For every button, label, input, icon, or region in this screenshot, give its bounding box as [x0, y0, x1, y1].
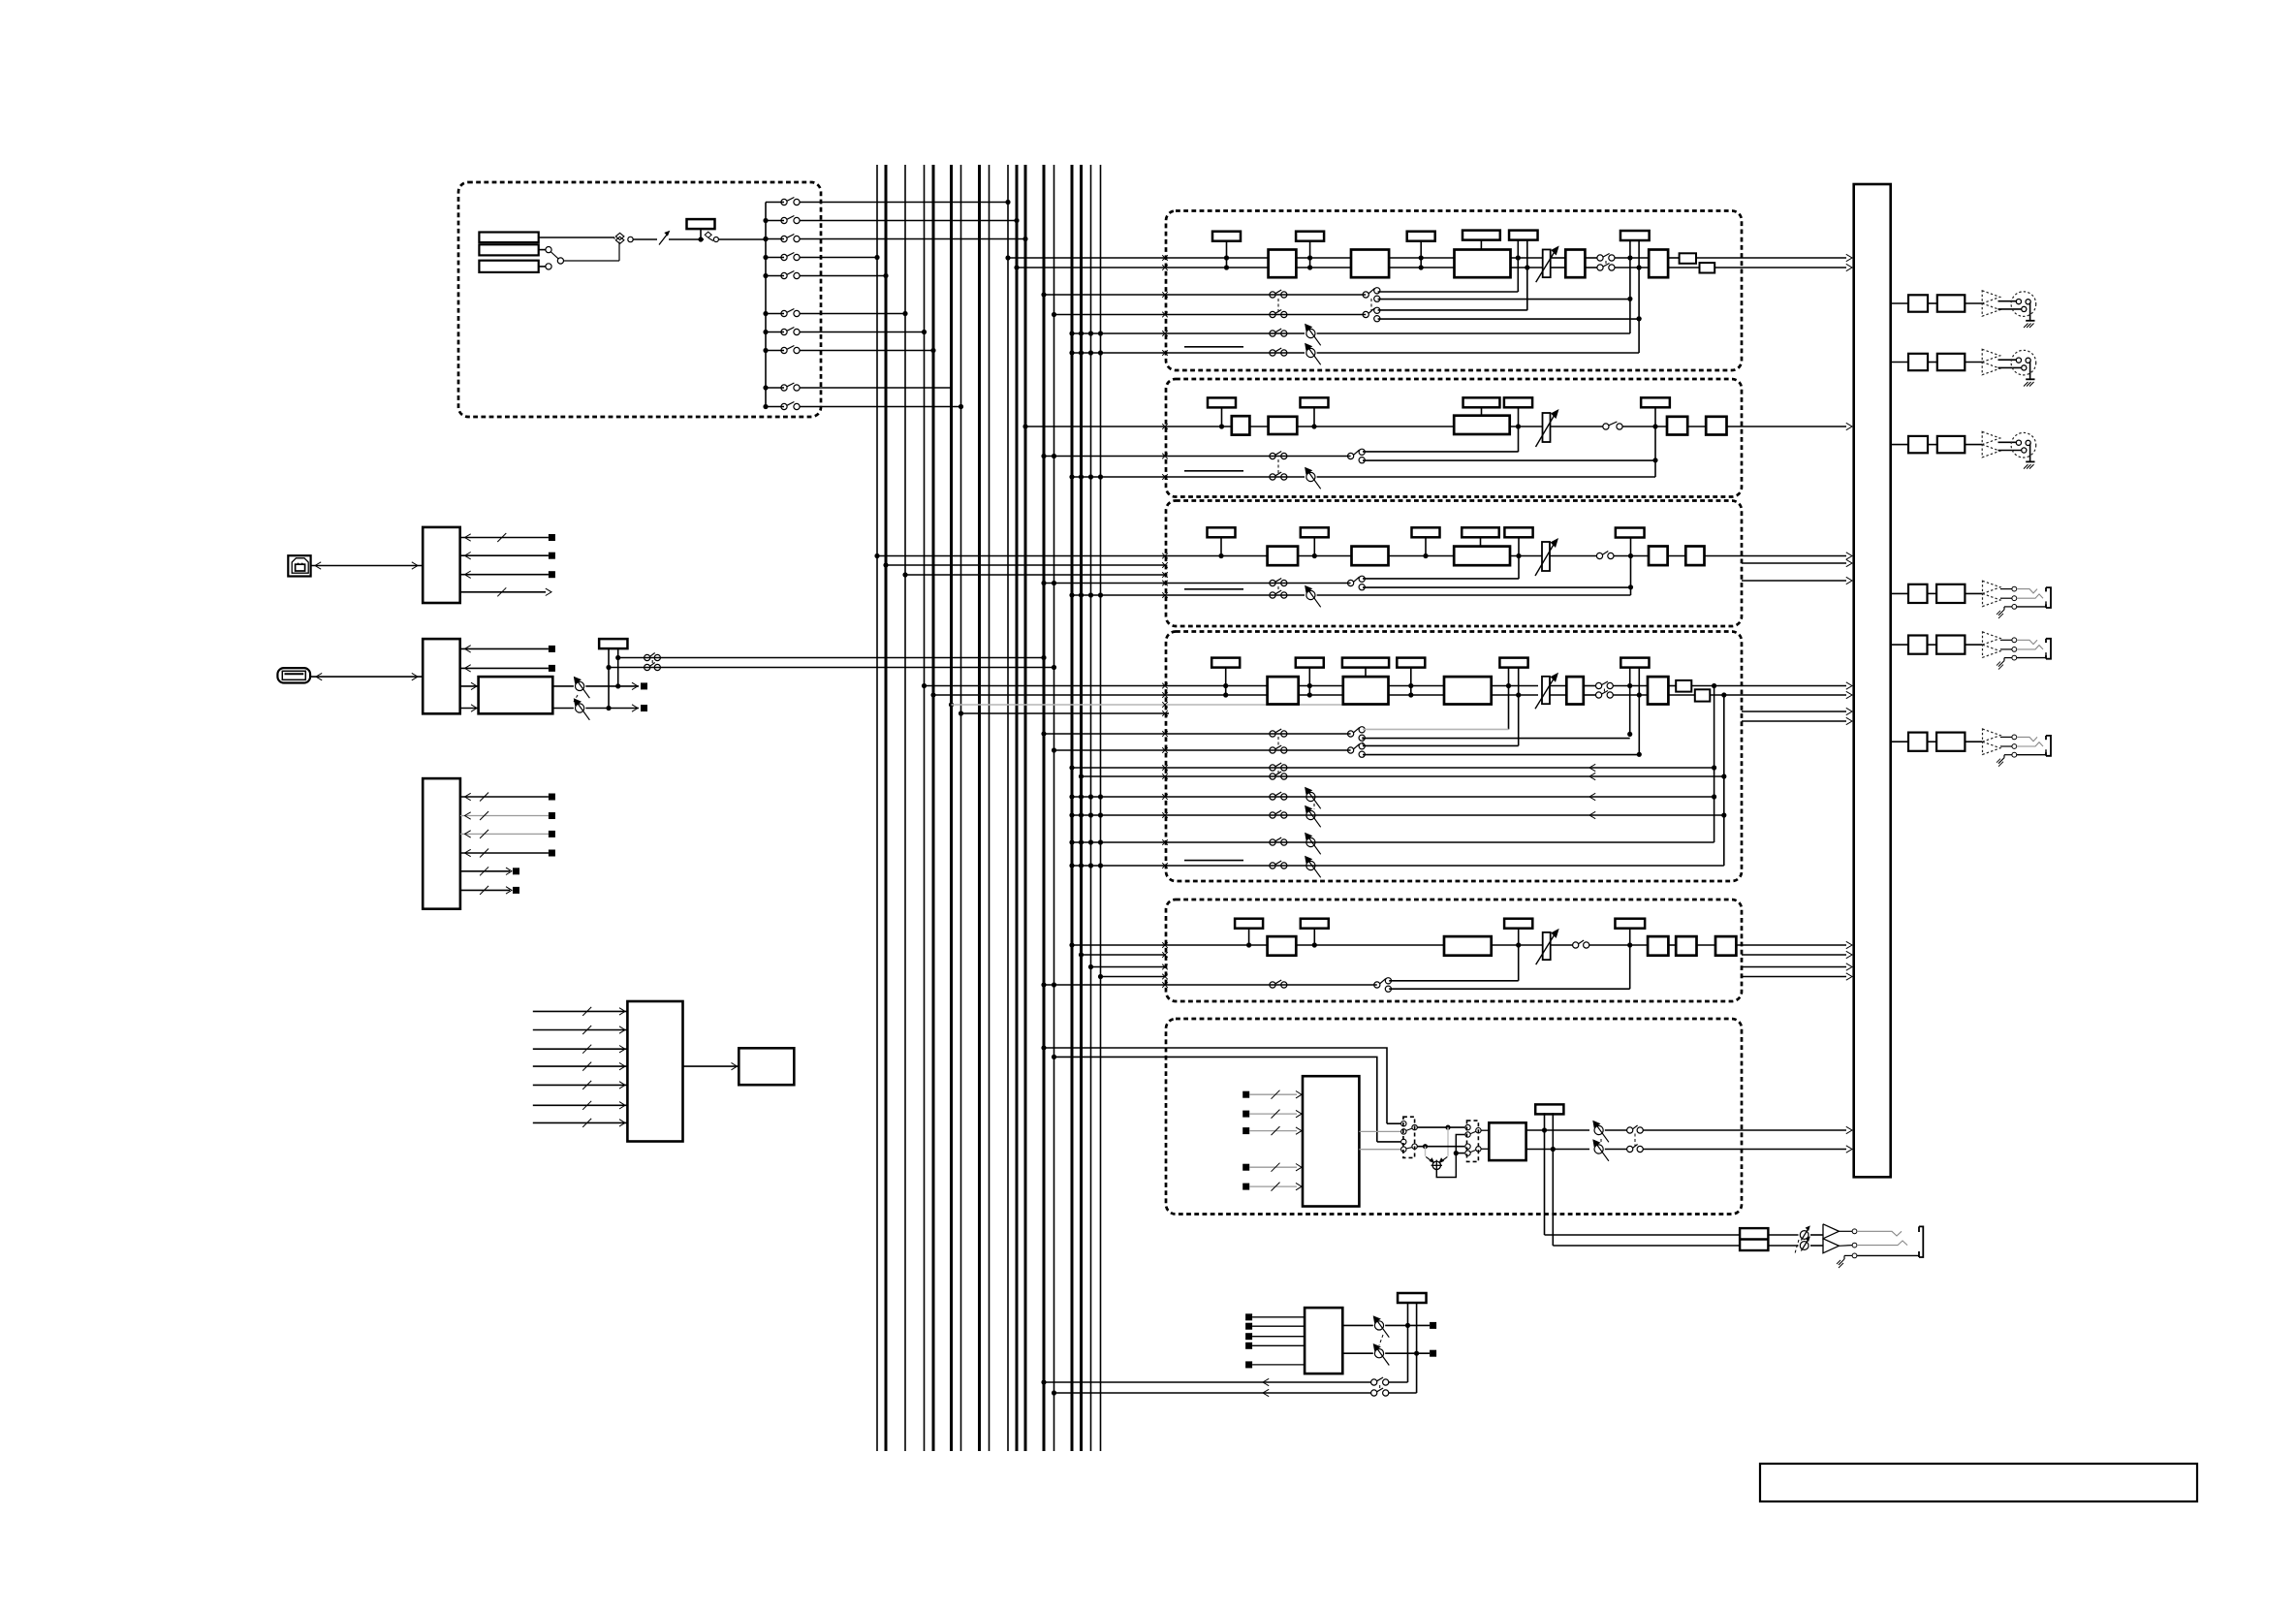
- CH4 row C1 pot: [1305, 787, 1321, 809]
- codec out pot 1: [552, 677, 589, 699]
- CH4 row D2 wire: [1166, 865, 1724, 867]
- CH5 out stub 2: [1742, 951, 1852, 958]
- CH4 T4 symbol: [1499, 658, 1527, 668]
- switch S3 lever: [546, 247, 564, 265]
- CH1 row B lower out: [1378, 316, 1642, 321]
- wire bus to CH3 line 2: [883, 562, 1167, 568]
- CH2 wire A-B: [1249, 426, 1268, 427]
- wire bus vertical V17 x=1125.5: [1090, 165, 1092, 1451]
- CH1 row D switch: [1270, 348, 1287, 356]
- CH2 wire C-D: [1687, 426, 1706, 427]
- master B out R: [1526, 1149, 1589, 1151]
- CH3 wire EQ-fader: [1510, 555, 1542, 557]
- master sel-B wires: [1481, 1130, 1489, 1149]
- panel scan input 6: [533, 1101, 628, 1110]
- usb T stem 2: [615, 649, 620, 689]
- wire bus vertical V6 x=981.5: [950, 165, 953, 1451]
- CH3 out stub 3: [1742, 577, 1852, 584]
- CH4 row B1 switch: [1270, 763, 1287, 771]
- wire bus to CH3 line 3: [902, 572, 1167, 578]
- phones tip contact: [1852, 1229, 1902, 1236]
- CH3 out wire: [1705, 553, 1853, 559]
- monitor pots gang dashed: [1379, 1335, 1383, 1345]
- CH5 on switch: [1573, 940, 1589, 948]
- master sel1 out wire: [1417, 1125, 1464, 1130]
- CH1 wires B-EQ: [1389, 258, 1454, 268]
- CH4 row C2 wire: [1166, 811, 1724, 818]
- monitor select block: [1305, 1308, 1342, 1374]
- CH1 row A switch: [1270, 290, 1287, 298]
- monitor select input 2: [1245, 1323, 1305, 1330]
- wire bus to CH2 aux row: [1041, 454, 1167, 459]
- CH5 T3 symbol: [1504, 919, 1532, 929]
- panel scan input 1: [533, 1007, 628, 1016]
- CH3 T1 symbol: [1208, 527, 1236, 558]
- USB-A wire to IF block: [311, 673, 423, 679]
- CH3 fader: [1535, 538, 1558, 576]
- CH2 T4 symbol: [1504, 397, 1532, 407]
- CH1 row D underline: [1184, 346, 1243, 348]
- wire bus vertical V5 x=963: [932, 165, 935, 1451]
- wire bus to CH5 line 2: [1079, 952, 1168, 958]
- channel 5 box (dashed): [1166, 900, 1742, 1001]
- CH2 T3 wide symbol: [1463, 397, 1500, 415]
- phones ground: [1837, 1255, 1852, 1268]
- channel 3 box (dashed): [1166, 501, 1742, 627]
- TRS jack output 1 chain: [1891, 581, 2051, 618]
- master block B: [1489, 1122, 1525, 1160]
- channel 1 box (dashed): [1166, 211, 1742, 371]
- CH1 on switch L: [1597, 254, 1615, 262]
- phones wire amp-tip R: [1810, 1245, 1852, 1248]
- CH4 row B2 wire: [1166, 773, 1724, 779]
- CH3 row2 upper out: [1363, 578, 1519, 580]
- monitor select input 4: [1245, 1342, 1305, 1349]
- panel scan input 2: [533, 1026, 628, 1034]
- input source selector block (dashed): [458, 182, 821, 417]
- CH4 wires fader-D: [1550, 686, 1566, 696]
- CH2 wire fader-sw: [1551, 426, 1603, 427]
- wire bus vertical V7 x=991.5: [960, 165, 962, 1451]
- CH5 row2 upper out: [1389, 980, 1519, 982]
- CH3 main wire in: [1166, 555, 1268, 557]
- wire bus vertical V16 x=1115.5: [1080, 165, 1083, 1451]
- connector block J1: [479, 233, 538, 243]
- CH3 T5 stem: [1516, 537, 1521, 579]
- master sum arrow L: [1426, 1156, 1434, 1163]
- wire bus to CH4 line 4: [959, 711, 1168, 716]
- CH1 row D out: [1317, 319, 1640, 353]
- master on switch R: [1627, 1145, 1644, 1153]
- CH5 block B: [1648, 936, 1668, 956]
- CH5 out stub 3: [1742, 963, 1852, 970]
- CH3 T5 symbol: [1504, 527, 1532, 537]
- CH3 row2 switch: [1270, 579, 1287, 586]
- master DSP input stub 4: [1242, 1163, 1302, 1172]
- CH4 wires D-sw: [1584, 686, 1596, 696]
- CH1 row C wire: [1166, 332, 1305, 334]
- master wire pot-sw R: [1605, 1149, 1627, 1151]
- CH4 row A1 lower out: [1363, 738, 1630, 740]
- wire T1 to switch S2: [701, 238, 704, 240]
- CH1 row B wire: [1166, 314, 1366, 316]
- phones wire amp-tip L: [1810, 1231, 1852, 1235]
- CH1 block D: [1649, 250, 1668, 278]
- CH1 fader: [1536, 245, 1559, 282]
- CH4 T5 stem R: [1637, 667, 1642, 757]
- CH4 T4 stem R: [1516, 667, 1521, 745]
- CH1 block B (comp): [1351, 250, 1389, 278]
- CH2 block C: [1667, 417, 1687, 435]
- CH1 rowAB sel gang dashed: [1370, 299, 1372, 311]
- CH3 T4 wide symbol: [1462, 527, 1499, 546]
- CH4 block A: [1268, 677, 1299, 704]
- CH2 T2 symbol: [1301, 397, 1329, 428]
- wire bus to CH3 aux row: [1041, 581, 1167, 586]
- CH4 row D2 pot: [1305, 856, 1321, 878]
- CH1 T5 symbol: [1509, 231, 1538, 240]
- panel scan input 4: [533, 1062, 628, 1071]
- wire bus vertical V3 x=934: [904, 165, 906, 1451]
- switch S2 lever: [705, 232, 718, 241]
- CH4 out stub 3: [1742, 708, 1852, 714]
- master sel2 selector: [1401, 1139, 1418, 1152]
- phones wire block-pot L: [1768, 1234, 1798, 1236]
- monitor select input 5: [1245, 1361, 1305, 1368]
- CH2 rows gang dashed: [1277, 459, 1279, 473]
- wire J2 stub: [539, 249, 546, 251]
- wire bus vertical V4 x=953.5: [924, 165, 926, 1451]
- wire bus to CH5 main: [1069, 942, 1167, 948]
- wire bus to CH3 main: [874, 553, 1167, 559]
- master T symbol: [1535, 1104, 1563, 1114]
- CH3 T6 symbol: [1616, 528, 1645, 538]
- phones pot L: [1800, 1225, 1810, 1240]
- wire bus to master select L: [1041, 1045, 1387, 1123]
- monitor T stem L: [1405, 1302, 1410, 1382]
- source select switch row 7 to bus: [763, 328, 927, 335]
- wire bus to CH4 return row B2: [1079, 774, 1168, 779]
- master select switch col 2 (dashed): [1467, 1121, 1479, 1161]
- USB-B stub 4: [460, 587, 551, 596]
- wire bus to CH1 effect row D: [1069, 350, 1167, 356]
- CH1 line L wire: [1166, 257, 1269, 259]
- CH4 switch gang dashed: [1603, 689, 1605, 693]
- master out L wire: [1643, 1126, 1852, 1133]
- CH4 on switch L: [1596, 681, 1614, 689]
- CH4 out R wire: [1710, 691, 1852, 698]
- control I/O block: [423, 778, 460, 909]
- ctrl stub 6: [460, 886, 519, 895]
- wire bus to CH3 effect row: [1069, 592, 1167, 598]
- wire bus to master select R: [1052, 1055, 1377, 1142]
- wire bus to CH4 return row B1: [1069, 765, 1167, 771]
- monitor T symbol: [1398, 1293, 1427, 1303]
- CH4 row A1 wire: [1166, 733, 1351, 735]
- CH1 wires EQ-fader: [1511, 258, 1543, 268]
- CH2 row2 switch: [1270, 452, 1287, 459]
- CH4 right vertical L: [1712, 686, 1716, 843]
- CH4 row A2 selector: [1348, 743, 1366, 758]
- master T stem L: [1542, 1113, 1547, 1235]
- CH2 block A: [1232, 416, 1250, 434]
- CH3 row2 lower out: [1363, 586, 1631, 588]
- XLR output 2 chain: [1891, 349, 2036, 386]
- wire bus to CH5 aux row: [1041, 982, 1167, 988]
- CH2 wire sw-T5: [1622, 426, 1667, 427]
- CH4 row C1 switch: [1270, 792, 1287, 800]
- wire bus to phones row R: [1052, 1389, 1371, 1396]
- ctrl stub 3: [460, 830, 555, 838]
- selector switch S1: [615, 233, 633, 243]
- CH1 small square L: [1680, 253, 1696, 264]
- CH4 row A2 lower out: [1363, 754, 1639, 756]
- connector block J3: [479, 261, 538, 272]
- CH4 wires EQ-fader: [1492, 686, 1538, 696]
- CH4 line4 stub: [1166, 712, 1169, 714]
- CH4 line L wire: [1166, 685, 1268, 687]
- CH4 line R wire: [1166, 694, 1268, 696]
- CH4 row A1 upper out gray: [1363, 728, 1509, 730]
- monitor return sw gang dashed: [1379, 1385, 1381, 1390]
- CH4 rowA sel gang dashed: [1362, 737, 1364, 747]
- XLR output 1 chain: [1891, 291, 2036, 328]
- CH1 row D wire: [1166, 352, 1305, 354]
- master sel1 input A wire: [1387, 1122, 1400, 1124]
- master big block (DSP): [1303, 1076, 1359, 1206]
- CH2 T4 stem: [1516, 408, 1521, 453]
- usb T stem 1: [606, 649, 611, 711]
- TRS jack output 3 chain: [1891, 729, 2051, 767]
- master T stem R: [1551, 1113, 1556, 1246]
- CH2 row3 wire: [1166, 476, 1305, 478]
- USB-B interface block: [423, 527, 460, 603]
- wire S2 to feeder: [718, 237, 768, 241]
- CH5 EQ block: [1444, 936, 1492, 956]
- CH4 T3 symbol: [1397, 658, 1425, 698]
- master section box (dashed): [1166, 1019, 1742, 1215]
- CH4 T1 symbol: [1211, 658, 1240, 698]
- master B out L: [1526, 1129, 1589, 1131]
- ctrl stub 2: [460, 811, 555, 820]
- CH5 wire EQ-fader: [1492, 944, 1543, 946]
- master sum tap R gray: [1425, 1147, 1427, 1156]
- wire bus to CH5 line 4: [1098, 974, 1168, 980]
- USB audio codec block: [479, 677, 553, 713]
- CH2 EQ block: [1454, 416, 1510, 434]
- CH2 row2 lower out: [1363, 459, 1655, 461]
- CH3 row3 underline: [1184, 588, 1243, 590]
- CH2 out wire: [1727, 423, 1853, 429]
- wire bus to CH4 effect row D1: [1069, 839, 1167, 845]
- source select switch row 4 to bus: [763, 253, 879, 261]
- master pots gang dashed: [1600, 1139, 1602, 1142]
- CH3 wire B-EQ: [1389, 555, 1455, 557]
- CH4 small square L: [1676, 680, 1691, 692]
- CH5 block D: [1715, 936, 1736, 956]
- CH4 rowA gang dashed: [1277, 737, 1279, 747]
- CH2 row3 out: [1317, 476, 1655, 478]
- CH2 block D: [1706, 417, 1726, 435]
- CH1 row B switch: [1270, 310, 1287, 318]
- master DSP input stub 5: [1242, 1183, 1302, 1191]
- CH1 block C: [1565, 250, 1585, 278]
- wire bus to CH4 aux row A1: [1041, 731, 1167, 737]
- monitor test point R: [1430, 1350, 1436, 1357]
- CH4 wires B-EQ: [1389, 686, 1445, 696]
- CH3 T2 symbol: [1301, 527, 1329, 558]
- CH4 rowB gang dashed: [1277, 771, 1279, 774]
- ctrl stub 4: [460, 849, 555, 858]
- CH2 fader: [1536, 409, 1559, 447]
- CH3 block B: [1352, 547, 1389, 566]
- CH1 wires fader-C: [1551, 258, 1565, 268]
- CH4 wires sw-T5: [1613, 686, 1648, 696]
- CH1 row B upper out: [1378, 309, 1527, 311]
- master sel4 selector: [1465, 1144, 1481, 1155]
- phones wire R: [1553, 1245, 1740, 1247]
- phones jack bar: [1919, 1226, 1923, 1257]
- wire bus to CH4 monitor row C1: [1069, 794, 1167, 800]
- CH4 block B: [1343, 677, 1389, 704]
- CH4 right vertical R: [1721, 695, 1726, 866]
- CH3 row2 wire: [1166, 583, 1351, 584]
- CH5 T4 symbol: [1615, 919, 1645, 929]
- CH2 T1 symbol: [1208, 397, 1236, 428]
- CH5 wire sw-T4: [1589, 944, 1649, 946]
- CH2 wire EQ-fader: [1510, 426, 1542, 427]
- monitor T stem R: [1414, 1302, 1419, 1393]
- wire J3 stub: [539, 264, 551, 269]
- CH1 small square R: [1700, 263, 1715, 272]
- CH2 on switch: [1603, 422, 1622, 429]
- CH2 row3 switch: [1270, 472, 1287, 480]
- master sum arrow R: [1438, 1156, 1447, 1163]
- USB-B connector icon: [288, 555, 310, 576]
- CH3 row3 pot: [1305, 585, 1321, 608]
- panel wire to sub block: [683, 1062, 739, 1069]
- monitor pot L: [1373, 1315, 1390, 1338]
- usb monitor switch 1: [645, 653, 661, 661]
- CH2 block B: [1269, 417, 1298, 434]
- monitor wire pot-T L: [1385, 1324, 1430, 1326]
- CH3 block A: [1268, 547, 1299, 566]
- master DSP input stub 3: [1242, 1126, 1302, 1135]
- wire bus vertical V14 x=1087.5: [1054, 165, 1055, 1451]
- monitor return switch L: [1371, 1377, 1408, 1385]
- USB-A connector icon: [277, 668, 310, 682]
- monitor test point L: [1430, 1322, 1436, 1329]
- CH1 row C switch: [1270, 329, 1287, 336]
- CH5 T4 stem: [1627, 928, 1632, 989]
- phones dual block: [1740, 1228, 1768, 1250]
- CH4 out stub 4: [1742, 717, 1852, 724]
- CH3 rows gang dashed: [1277, 586, 1279, 591]
- wire bus vertical V1 x=905: [876, 165, 878, 1451]
- CH5 block A: [1268, 936, 1297, 956]
- monitor return switch R: [1371, 1388, 1417, 1396]
- CH4 row A1 switch: [1270, 729, 1287, 737]
- CH3 wire sw-T6: [1614, 555, 1649, 557]
- USB-A stub 2: [460, 665, 555, 672]
- CH4 row D1 switch: [1270, 837, 1287, 845]
- CH3 row2 selector: [1348, 576, 1366, 590]
- CH2 row2 wire: [1166, 456, 1351, 458]
- master DSP out 1 gray: [1359, 1130, 1400, 1132]
- wire bus to CH1 line R: [1014, 265, 1167, 270]
- CH4 block D: [1566, 677, 1584, 704]
- CH2 row2 selector: [1348, 449, 1366, 463]
- source select switch row 1 to bus: [766, 198, 1011, 205]
- input trim pot arrow: [659, 231, 670, 245]
- phones ring contact: [1852, 1241, 1907, 1248]
- CH4 wires A-B: [1299, 686, 1343, 696]
- CH4 monitor line gray: [1166, 704, 1347, 706]
- master on switch L: [1627, 1125, 1644, 1133]
- monitor pot R: [1373, 1343, 1390, 1366]
- CH1 T4 wide symbol: [1463, 231, 1500, 250]
- CH3 on switch: [1596, 552, 1614, 559]
- CH4 row C2 switch: [1270, 810, 1287, 818]
- CH1 rowAB gang dashed: [1277, 299, 1279, 311]
- master sum tap to sel4: [1456, 1153, 1464, 1154]
- CH2 row2 upper out: [1363, 451, 1519, 453]
- CH4 row A2 upper out: [1363, 744, 1519, 746]
- CH4 out L wire: [1691, 682, 1852, 689]
- CH1 row A selector: [1363, 288, 1380, 302]
- CH3 wire A-B: [1298, 555, 1351, 557]
- CH5 row2 switch: [1270, 980, 1287, 988]
- CH1 row A wire: [1166, 294, 1366, 296]
- CH5 out wire: [1736, 941, 1852, 948]
- CH1 wires C-sw: [1585, 258, 1597, 268]
- CH1 row A upper out: [1378, 290, 1519, 292]
- USB-A wire to codec 1: [460, 682, 479, 689]
- CH1 row C out: [1317, 299, 1630, 333]
- CH1 T3 symbol: [1407, 232, 1435, 270]
- CH1 out L wire: [1696, 254, 1852, 261]
- CH2 wire B-EQ: [1297, 426, 1454, 427]
- CH3 block D: [1685, 547, 1704, 566]
- CH5 wire C-D: [1697, 944, 1716, 946]
- CH5 row2 selector: [1374, 978, 1392, 993]
- source select switch row 6 to bus: [763, 309, 907, 317]
- CH1 wires A-B: [1296, 258, 1351, 268]
- wire selector to pot: [633, 238, 657, 240]
- usb wire pot-sq 2: [585, 705, 647, 711]
- CH2 row3 pot: [1305, 467, 1321, 490]
- wire bus vertical V2 x=914: [885, 165, 888, 1451]
- USB-B wire to IF block: [310, 562, 423, 569]
- connector block J2: [479, 244, 538, 255]
- CH4 block E: [1648, 677, 1668, 704]
- CH4 row D2 switch: [1270, 861, 1287, 869]
- CH4 on switch R: [1596, 691, 1614, 699]
- phones amp triangles: [1823, 1224, 1839, 1253]
- monitor out wire L: [1342, 1324, 1373, 1326]
- CH4 row B1 wire: [1166, 764, 1714, 771]
- CH1 T5 stem L: [1516, 240, 1521, 292]
- master select switch col 1 (dashed): [1403, 1117, 1415, 1157]
- output summing bus block: [1854, 184, 1891, 1177]
- CH5 row2 lower out: [1389, 988, 1630, 990]
- panel sub block: [739, 1048, 794, 1085]
- CH3 T3 symbol: [1412, 527, 1440, 558]
- CH4 row A2 switch: [1270, 745, 1287, 753]
- CH4 row D2 underline: [1184, 860, 1243, 862]
- CH4 rowC pots gang dashed: [1313, 804, 1315, 809]
- source select switch row 8 to bus: [763, 346, 935, 354]
